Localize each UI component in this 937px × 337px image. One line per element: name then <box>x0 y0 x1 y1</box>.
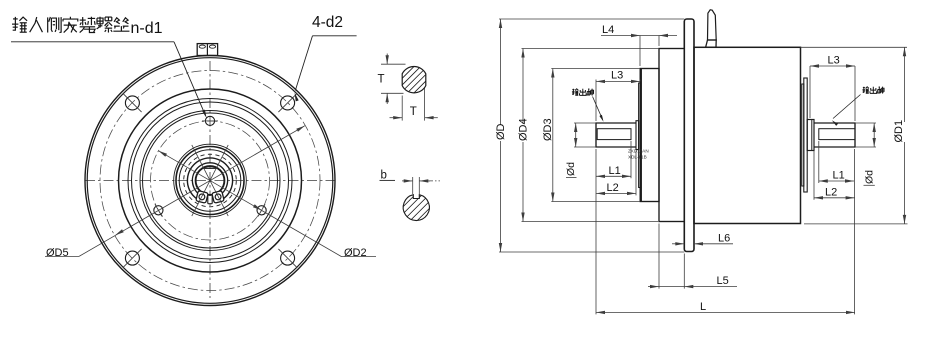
front view: circlip left ear <box>196 191 208 204</box>
left hub ring <box>636 121 639 150</box>
front view: circlip right ear hole <box>215 194 221 200</box>
front view: retaining ring (circlip) outer arc <box>187 158 232 202</box>
screw hole n-d1 lower-right <box>257 206 266 215</box>
input housing cylinder D3 <box>640 69 659 202</box>
radial centerline slash through bottom-right hole <box>278 249 296 267</box>
front view: circlip right ear <box>212 191 224 204</box>
front view: shaft bore circle (thick) <box>196 166 225 195</box>
svg-text:L5: L5 <box>717 275 729 287</box>
front view: vertical centerline <box>209 61 211 298</box>
mounting hole d2 bottom-right <box>281 251 295 265</box>
label ØD2 with leader underline <box>342 256 377 258</box>
dimension Ød (left shaft) <box>574 122 596 124</box>
svg-text:Ød: Ød <box>565 162 577 176</box>
mounting hole d2 bottom-left <box>125 251 139 265</box>
svg-text:L6: L6 <box>718 233 730 245</box>
radial centerline slash through top-right hole <box>278 94 296 112</box>
cable gland on body top <box>708 10 717 40</box>
side view: left output shaft <box>596 123 636 147</box>
svg-text:ØD3: ØD3 <box>542 118 554 141</box>
svg-text:L3: L3 <box>828 55 840 67</box>
dimension line for ØD2 (through center at 30deg) <box>158 151 341 257</box>
dimension L (overall length) <box>596 311 855 313</box>
dimension L2 (right) <box>813 151 815 200</box>
front view: bolt circle dia D5 (dash-dot) through 4 corner holes <box>100 71 320 291</box>
dimension L2 (left) <box>635 151 637 196</box>
left spacer disc <box>639 83 641 188</box>
tangential slash through lower-right small hole <box>258 204 265 216</box>
label output shaft (left, Chinese) with leader <box>572 89 578 96</box>
svg-text:ØD5: ØD5 <box>46 247 69 259</box>
svg-text:ØD: ØD <box>495 123 507 140</box>
radial centerline slash through top-left hole <box>123 94 141 112</box>
mounting flange plate (dia D) <box>684 19 694 252</box>
dimension ØD1 <box>801 46 908 48</box>
svg-text:Ød: Ød <box>864 170 876 184</box>
svg-text:T: T <box>410 106 417 118</box>
dimension L4 <box>639 36 641 67</box>
dimension L3 (right) <box>809 66 811 118</box>
front view: hub inner circle r30.8 <box>179 150 241 212</box>
right spacer disc 1 <box>802 84 804 186</box>
dimension ØD (flange diameter) <box>499 18 684 20</box>
right shaft keyway slot <box>819 129 855 140</box>
left shaft keyway slot <box>597 129 631 140</box>
front view: retaining ring inner arc <box>192 163 227 197</box>
tangential tick through top small hole <box>202 120 218 122</box>
right hub ring <box>807 120 814 151</box>
detail T vertical dimension <box>381 63 406 65</box>
dimension L5 <box>658 224 660 289</box>
detail section: shaft with keyway slot <box>403 195 429 221</box>
label output shaft (right, Chinese) with leader <box>862 87 868 94</box>
right spacer disc 2 <box>804 78 807 192</box>
dimension L3 (left) <box>595 80 597 122</box>
dimension ØD3 <box>551 68 640 70</box>
svg-text:L3: L3 <box>611 70 623 82</box>
dimension L1 (right) <box>818 141 820 183</box>
leader line from 4-d2 label to top-right hole <box>313 35 357 37</box>
front view: step circle r78.5 <box>132 102 289 259</box>
front view: flange outer inner ring <box>87 58 333 304</box>
svg-text:ØD2: ØD2 <box>344 247 367 259</box>
front view: circlip left ear hole <box>199 194 205 200</box>
tangential slash through lower-left small hole <box>155 204 162 216</box>
svg-text:L1: L1 <box>833 170 845 182</box>
front view: flange outer circle (OD) <box>85 56 335 306</box>
svg-text:n-d1: n-d1 <box>131 20 163 37</box>
detail T horizontal dimension <box>401 96 403 121</box>
front view: steep diagonal centerline (X) NW-SE <box>192 145 228 216</box>
side view: right output shaft <box>814 123 855 147</box>
leader line from n-d1 label to top screw hole <box>11 41 174 43</box>
front view: hub circle r34 (thick) <box>176 147 244 215</box>
connector terminal block on top of flange <box>197 44 217 56</box>
front view: step circle r67.5 <box>143 113 278 248</box>
svg-text:T: T <box>378 73 385 85</box>
dimension L1 (left) <box>595 149 597 314</box>
front view: notch between circlip ears <box>208 196 212 204</box>
svg-text:L1: L1 <box>609 165 621 177</box>
dimension line for ØD5 (through center at -30deg) <box>79 126 305 257</box>
label ØD5 with leader underline <box>45 255 79 257</box>
front view: horizontal centerline <box>85 180 335 182</box>
front view: shaft flat chord at bore top <box>203 167 217 169</box>
housing cylinder D4 <box>659 49 684 222</box>
screw hole n-d1 lower-left <box>154 206 163 215</box>
svg-text:L: L <box>700 301 706 313</box>
front view: hub circle r36 <box>174 144 247 217</box>
svg-text:ØD1: ØD1 <box>893 120 905 143</box>
front view: step circle r82 <box>128 99 292 263</box>
dimension ØD4 <box>522 48 660 50</box>
detail section: shaft with two flats, hatched <box>402 67 426 93</box>
front view: housing circle <box>119 89 302 272</box>
svg-text:L2: L2 <box>607 182 619 194</box>
svg-text:ØD4: ØD4 <box>518 118 530 141</box>
front view: bolt circle dia D2 (dash-dot) through 3 small screw holes <box>151 121 270 240</box>
cable foot <box>706 40 717 47</box>
radial centerline slash through bottom-left hole <box>123 249 141 267</box>
screw hole n-d1 top <box>205 116 214 125</box>
detail b dimension <box>412 177 414 194</box>
mounting hole d2 top-right <box>281 96 295 110</box>
label: input-side mounting screw n-d1 (Chinese) text <box>12 17 27 32</box>
svg-text:4-d2: 4-d2 <box>312 14 343 31</box>
mounting hole d2 top-left <box>125 96 139 110</box>
encoder body cylinder (dia D1) <box>694 47 801 223</box>
svg-text:L4: L4 <box>602 24 614 36</box>
dimension Ød (right shaft) <box>855 122 876 124</box>
svg-text:L2: L2 <box>825 187 837 199</box>
front view: steep diagonal centerline (X) NE-SW <box>192 145 228 216</box>
dimension L6 (flange thickness) <box>672 243 684 245</box>
svg-text:b: b <box>381 170 387 182</box>
front view: thread dashed circle r26.3 <box>184 154 237 207</box>
front view: step circle r70 <box>140 111 280 251</box>
